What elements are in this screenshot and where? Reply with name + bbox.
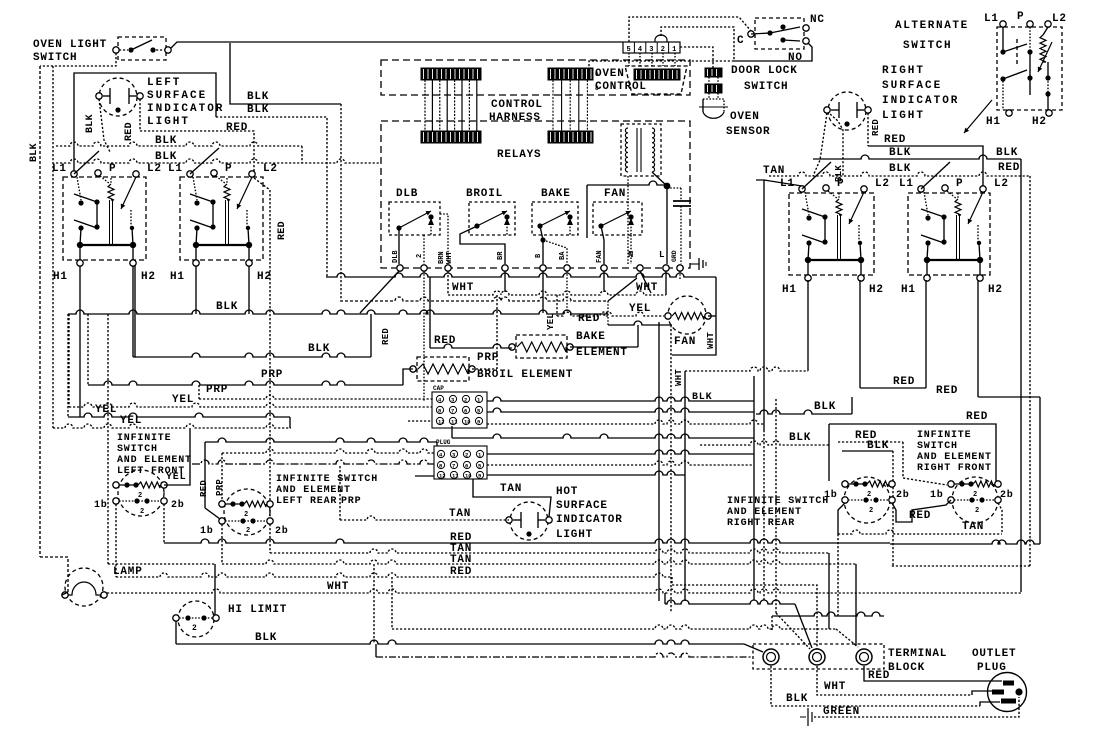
wire NO loop [734, 43, 812, 61]
svg-text:RELAYS: RELAYS [497, 149, 541, 161]
terminal L1 box3 [780, 178, 805, 192]
svg-text:BAKE: BAKE [541, 188, 571, 200]
wire BLK right b [769, 172, 1030, 566]
svg-text:SURFACE: SURFACE [882, 80, 942, 92]
relay DLB label [396, 188, 418, 200]
svg-text:PRP: PRP [341, 496, 361, 507]
svg-text:2: 2 [246, 527, 250, 535]
wire left vertical x53 [52, 66, 54, 428]
label OVEN CONTROL [595, 68, 647, 93]
svg-text:12: 12 [438, 419, 445, 426]
wire H1 box3 down [685, 280, 808, 371]
svg-text:2: 2 [975, 507, 979, 515]
door lock switch label [731, 65, 798, 93]
label RED wire [226, 122, 248, 134]
terminal H2 box2 [246, 260, 272, 283]
wire right vertical down b [890, 565, 1030, 567]
svg-text:BR: BR [497, 251, 505, 260]
label BLK rf2 [867, 440, 889, 452]
pin label BR [497, 251, 505, 260]
switch blade L1 box2 [190, 148, 219, 174]
terminal block label [888, 648, 947, 674]
wire BLK trunk a [56, 142, 302, 163]
svg-text:PLUG: PLUG [436, 439, 451, 446]
wire lamp feed [108, 314, 215, 564]
svg-text:RED: RED [277, 221, 288, 240]
svg-text:RIGHT REAR: RIGHT REAR [727, 518, 795, 529]
wire top bus to door lock C [629, 17, 751, 42]
svg-text:12: 12 [439, 473, 446, 480]
wire left rear 2b down [269, 524, 271, 553]
svg-text:LIGHT: LIGHT [882, 110, 925, 122]
svg-text:BRN: BRN [438, 251, 446, 264]
relay FAN [593, 202, 642, 235]
svg-text:SWITCH: SWITCH [744, 81, 788, 93]
right surface indicator label [882, 65, 959, 122]
svg-text:B: B [535, 253, 543, 258]
control harness ribbon connector left [421, 68, 481, 143]
hot surface indicator label [556, 486, 623, 541]
terminal L1 box1 [52, 163, 77, 177]
svg-text:7: 7 [451, 408, 454, 415]
infinite switch right rear [842, 477, 895, 523]
wire TAN to hot surface [340, 466, 509, 520]
svg-text:1: 1 [672, 46, 676, 54]
wire trunk y465 [487, 461, 754, 465]
oven light switch label [33, 39, 107, 64]
svg-text:ELEMENT: ELEMENT [576, 347, 628, 359]
wire hot surface right lead [473, 479, 551, 517]
svg-text:PLUG: PLUG [977, 662, 1007, 674]
wire GREEN plug [814, 697, 1019, 717]
wire bundle x776 [775, 399, 777, 613]
svg-text:PRP: PRP [477, 352, 499, 364]
svg-text:BLK: BLK [308, 343, 330, 355]
wire RED trunk1 [164, 539, 890, 543]
wire pin GRD down [679, 271, 681, 280]
svg-text:TAN: TAN [763, 165, 785, 177]
outlet plug [988, 673, 1027, 712]
wire RED vert lf [205, 442, 220, 519]
svg-text:BLOCK: BLOCK [888, 662, 925, 674]
svg-text:TAN: TAN [449, 508, 471, 520]
terminal H2 box4 [977, 275, 1003, 296]
label BLK right mid [814, 401, 836, 413]
svg-text:RIGHT: RIGHT [882, 65, 925, 77]
relay BROIL [469, 202, 515, 235]
svg-text:2: 2 [661, 46, 665, 54]
wire H2 box2 down [248, 266, 250, 314]
svg-text:L1: L1 [984, 13, 999, 25]
svg-text:CAP: CAP [433, 385, 444, 392]
switch internals box2 [190, 176, 252, 260]
terminal H2 box1 [130, 260, 156, 283]
wire trunk y424 [487, 420, 764, 424]
svg-text:BLK: BLK [867, 440, 889, 452]
label WHT bundle [674, 369, 684, 386]
svg-text:GRD: GRD [671, 250, 678, 262]
svg-text:TAN: TAN [962, 521, 984, 533]
relay FAN wires [601, 226, 631, 264]
alternate switch box [997, 27, 1062, 110]
wire trunk y454 [487, 450, 754, 454]
wire trunk y442 [205, 438, 437, 446]
wire right ind left lead [813, 113, 827, 176]
svg-text:BROIL ELEMENT: BROIL ELEMENT [477, 369, 573, 381]
label RED lf [199, 480, 209, 497]
svg-text:BLK: BLK [814, 401, 836, 413]
switch internals box1 [74, 176, 136, 260]
wire H2 box4 down [890, 280, 1040, 544]
capacitor [667, 188, 691, 264]
pin label BRN [438, 251, 454, 264]
svg-text:L2: L2 [994, 178, 1009, 190]
wire vert x392 [391, 577, 393, 629]
wire YEL c [53, 424, 291, 428]
wire RED to L2 [140, 131, 254, 172]
svg-text:H1: H1 [53, 271, 68, 283]
svg-text:TAN: TAN [500, 483, 522, 495]
terminal P box4 [942, 178, 964, 191]
label BLK right a [889, 147, 1018, 159]
wire transformer bus [587, 181, 667, 264]
label BLK plug [786, 693, 808, 705]
svg-text:WHT: WHT [446, 251, 454, 264]
wire left indicator right lead [139, 99, 141, 131]
svg-text:10: 10 [464, 419, 471, 426]
labels 1b 2b right front [930, 489, 1014, 501]
svg-text:CONTROL: CONTROL [491, 99, 543, 111]
switch blade L1 box1 [74, 151, 99, 174]
label YEL c [120, 415, 142, 427]
label TAN trunk1 [450, 543, 472, 555]
svg-text:WHT: WHT [706, 332, 716, 349]
pin label L [659, 250, 664, 260]
fan motor [665, 296, 711, 334]
wire trunk y438 [452, 426, 754, 438]
wire trunk y412 [487, 408, 754, 412]
label WHT fan [706, 332, 716, 349]
label WHT left [452, 282, 474, 294]
label BLK right b [889, 162, 1020, 175]
wire line C [340, 278, 637, 325]
infinite switch right rear label [727, 496, 829, 529]
wire right ind right lead [867, 113, 869, 146]
svg-text:RED: RED [884, 134, 906, 146]
svg-text:BLK: BLK [29, 143, 40, 162]
svg-text:INFINITE: INFINITE [117, 433, 171, 444]
terminal L2 box2 [249, 163, 278, 177]
svg-text:FAN: FAN [596, 250, 604, 263]
wire BLK trunk b [56, 159, 381, 163]
label RED trunk1 [450, 532, 472, 544]
terminal P box3 [823, 178, 845, 191]
wire pin BR down [504, 271, 506, 292]
svg-text:SWITCH: SWITCH [33, 52, 77, 64]
svg-text:LAMP: LAMP [113, 566, 143, 578]
infinite switch left rear [219, 489, 273, 535]
oven control connector [625, 66, 687, 94]
control harness ribbon connector right [548, 68, 599, 143]
svg-text:2b: 2b [171, 499, 185, 511]
terminal L2 box4 [980, 178, 1009, 192]
wire left rear 1b down [221, 524, 223, 564]
terminal P box1 [95, 163, 117, 176]
right front surface switch box [789, 193, 874, 275]
label BLK trunk b [155, 151, 177, 163]
label CONTROL HARNESS [489, 99, 543, 124]
wire YEL a [69, 314, 432, 407]
wire BLK hi limit [176, 621, 763, 652]
svg-text:L1: L1 [52, 163, 67, 175]
svg-text:DLB: DLB [392, 250, 400, 263]
wire trunk y475 [487, 471, 685, 475]
svg-text:BLK: BLK [789, 432, 811, 444]
wire trunk y401 [487, 397, 754, 401]
svg-text:BLK: BLK [255, 632, 277, 644]
label BLK upper [247, 91, 269, 103]
wire rf 2b down [838, 503, 1002, 616]
wire line A [326, 273, 716, 316]
wire RED right front box [829, 424, 996, 481]
svg-text:RED: RED [868, 670, 890, 682]
wire bundle x685 [684, 371, 686, 601]
svg-text:INFINITE SWITCH: INFINITE SWITCH [276, 474, 378, 485]
svg-text:BLK: BLK [889, 147, 911, 159]
svg-text:RED: RED [893, 376, 915, 388]
label RED vertical mid [381, 328, 391, 345]
label BLK trunk a [155, 135, 177, 147]
label GREEN plug [823, 706, 860, 718]
svg-text:2: 2 [867, 491, 871, 499]
svg-text:2: 2 [138, 492, 142, 500]
svg-text:TERMINAL: TERMINAL [888, 648, 947, 660]
hot surface indicator light [506, 502, 552, 540]
pin label GRD [671, 250, 678, 262]
wire BLK trunk mid [68, 310, 608, 417]
wire BLK plug [771, 666, 1000, 706]
relay BROIL label [466, 188, 503, 200]
svg-text:6: 6 [464, 408, 467, 415]
svg-text:INDICATOR: INDICATOR [556, 514, 623, 526]
terminal H1 box2 [170, 260, 199, 283]
svg-text:LEFT REAR: LEFT REAR [276, 496, 337, 507]
svg-text:RED: RED [936, 385, 958, 397]
terminal block terminals [763, 649, 872, 665]
label TAN trunk2 [450, 554, 472, 566]
wire vert x374 [373, 564, 375, 644]
terminal L2 box1 [133, 163, 162, 177]
ground symbol relay area [690, 258, 706, 270]
svg-text:RIGHT FRONT: RIGHT FRONT [917, 463, 992, 474]
svg-text:LIGHT: LIGHT [147, 116, 190, 128]
label RED trunk2 [450, 566, 472, 578]
svg-text:BLK: BLK [247, 104, 269, 116]
wire pin DLB down [360, 271, 399, 313]
wire BLK rf2 [842, 451, 893, 566]
pin label FAN [596, 250, 604, 263]
svg-text:BLK: BLK [85, 114, 96, 133]
svg-text:2b: 2b [275, 525, 289, 537]
wire diag t2b [776, 613, 810, 649]
svg-text:5: 5 [627, 46, 631, 54]
svg-text:AND ELEMENT: AND ELEMENT [117, 455, 192, 466]
svg-text:9: 9 [478, 473, 481, 480]
infinite switch left front [113, 470, 167, 516]
svg-text:AND ELEMENT: AND ELEMENT [917, 452, 992, 463]
terminal H1 box1 [53, 260, 83, 283]
pin label N [628, 250, 633, 260]
svg-text:SURFACE: SURFACE [556, 500, 608, 512]
wire WHT lamp [107, 589, 1021, 648]
wire left indicator left lead [99, 99, 110, 152]
svg-text:RED: RED [434, 335, 456, 347]
svg-text:1b: 1b [930, 489, 944, 501]
left surface indicator light [96, 78, 143, 116]
wire TAN trunk1 [270, 549, 829, 629]
svg-text:SWITCH: SWITCH [117, 444, 158, 455]
svg-text:HOT: HOT [556, 486, 578, 498]
wire far-left BLK vertical [40, 66, 68, 592]
svg-text:P: P [837, 178, 844, 190]
left surface indicator light label [147, 77, 224, 128]
CAP connector [432, 385, 487, 428]
left front surface switch box [63, 177, 146, 260]
lamp [62, 568, 107, 606]
wire CAP row3 left stub [408, 420, 432, 422]
svg-text:LEFT: LEFT [147, 77, 181, 89]
label RED h2box3 [893, 376, 915, 388]
label YEL a [172, 394, 194, 406]
label BLK right ind [834, 165, 844, 182]
svg-text:P: P [1017, 11, 1024, 23]
svg-text:OUTLET: OUTLET [972, 648, 1016, 660]
svg-text:6: 6 [465, 463, 468, 470]
label BLK lower [247, 104, 269, 116]
wire PRP b [199, 385, 433, 399]
svg-text:H1: H1 [170, 271, 185, 283]
svg-text:PRP: PRP [261, 369, 283, 381]
label PRP b [206, 384, 228, 396]
relays dashed box [381, 121, 690, 268]
broil element label [477, 352, 573, 381]
wire RED right [868, 146, 983, 186]
hi limit label [228, 604, 287, 616]
wire BLK right a [813, 155, 1021, 592]
svg-text:2: 2 [464, 397, 467, 404]
label BLK trunk mid [216, 301, 238, 313]
svg-text:YEL: YEL [120, 415, 142, 427]
label YEL switch [166, 472, 186, 483]
svg-text:SWITCH: SWITCH [917, 441, 958, 452]
svg-text:L: L [659, 250, 664, 260]
wire RED box2 right [254, 178, 270, 518]
switch blade L1 box3 [802, 162, 831, 189]
label RED rf [855, 430, 877, 442]
terminal L2 box3 [861, 178, 890, 192]
wire transformer secondary right [652, 172, 667, 186]
svg-text:YEL: YEL [546, 313, 556, 330]
bake element label [576, 331, 628, 359]
svg-text:WHT: WHT [674, 369, 684, 386]
svg-text:DLB: DLB [396, 188, 418, 200]
label YEL vertical [546, 313, 556, 330]
svg-text:INFINITE: INFINITE [917, 430, 971, 441]
label BLK mid [308, 343, 330, 355]
svg-text:4: 4 [638, 46, 642, 54]
label BLK rf [789, 432, 811, 444]
svg-text:BLK: BLK [786, 693, 808, 705]
wire trunk y453 [222, 449, 434, 453]
label RED left indicator [124, 122, 135, 141]
svg-text:LIGHT: LIGHT [556, 529, 593, 541]
wire RED rf [838, 442, 947, 485]
svg-text:1b: 1b [200, 525, 214, 537]
label PRP a [261, 369, 283, 381]
svg-text:FAN: FAN [674, 336, 696, 348]
svg-text:BLK: BLK [155, 135, 177, 147]
svg-text:NC: NC [810, 14, 825, 26]
svg-text:H2: H2 [988, 284, 1003, 296]
relay pin terminals [397, 265, 683, 271]
svg-text:L1: L1 [780, 178, 795, 190]
relay BAKE label [541, 188, 571, 200]
svg-text:OVEN: OVEN [730, 111, 760, 123]
svg-text:H2: H2 [869, 284, 884, 296]
wire BLK rf [700, 441, 829, 445]
label TAN rf [962, 521, 984, 533]
oven sensor [699, 68, 728, 118]
ground symbol bottom [800, 708, 812, 726]
svg-text:PRP: PRP [206, 384, 228, 396]
label YEL b [95, 404, 117, 416]
svg-text:SENSOR: SENSOR [726, 126, 770, 138]
label BLK hi limit [255, 632, 277, 644]
wire bake right [570, 321, 672, 347]
label WHT plug [824, 681, 846, 693]
svg-text:11: 11 [451, 419, 458, 426]
relay DLB [389, 202, 440, 235]
wire vert x764b [763, 430, 765, 600]
svg-text:INDICATOR: INDICATOR [147, 103, 224, 115]
relay BAKE [532, 202, 578, 235]
wire left enclosure box [74, 73, 216, 171]
wire WHT bus [448, 271, 666, 295]
broil element [410, 357, 475, 381]
svg-text:CONTROL: CONTROL [595, 81, 647, 93]
svg-text:RED: RED [199, 480, 209, 497]
svg-text:10: 10 [465, 473, 472, 480]
svg-text:2: 2 [416, 254, 424, 258]
relay FAN label [604, 188, 626, 200]
svg-text:RED: RED [226, 122, 248, 134]
wire fan right loop [672, 316, 716, 355]
svg-text:N: N [628, 250, 633, 260]
svg-text:RED: RED [124, 122, 135, 141]
svg-text:L1: L1 [168, 163, 183, 175]
svg-text:BLK: BLK [216, 301, 238, 313]
wire bundle x659 [658, 322, 660, 601]
wire BLK upper right [230, 43, 341, 299]
svg-text:C: C [737, 35, 744, 47]
svg-text:RED: RED [966, 411, 988, 423]
hi limit switch [173, 601, 219, 637]
svg-text:YEL: YEL [629, 303, 651, 315]
label RED right of box2 [277, 221, 288, 240]
svg-text:OVEN LIGHT: OVEN LIGHT [33, 39, 107, 51]
wire bottom y616 [772, 612, 884, 630]
label BLK left indicator [85, 114, 96, 133]
